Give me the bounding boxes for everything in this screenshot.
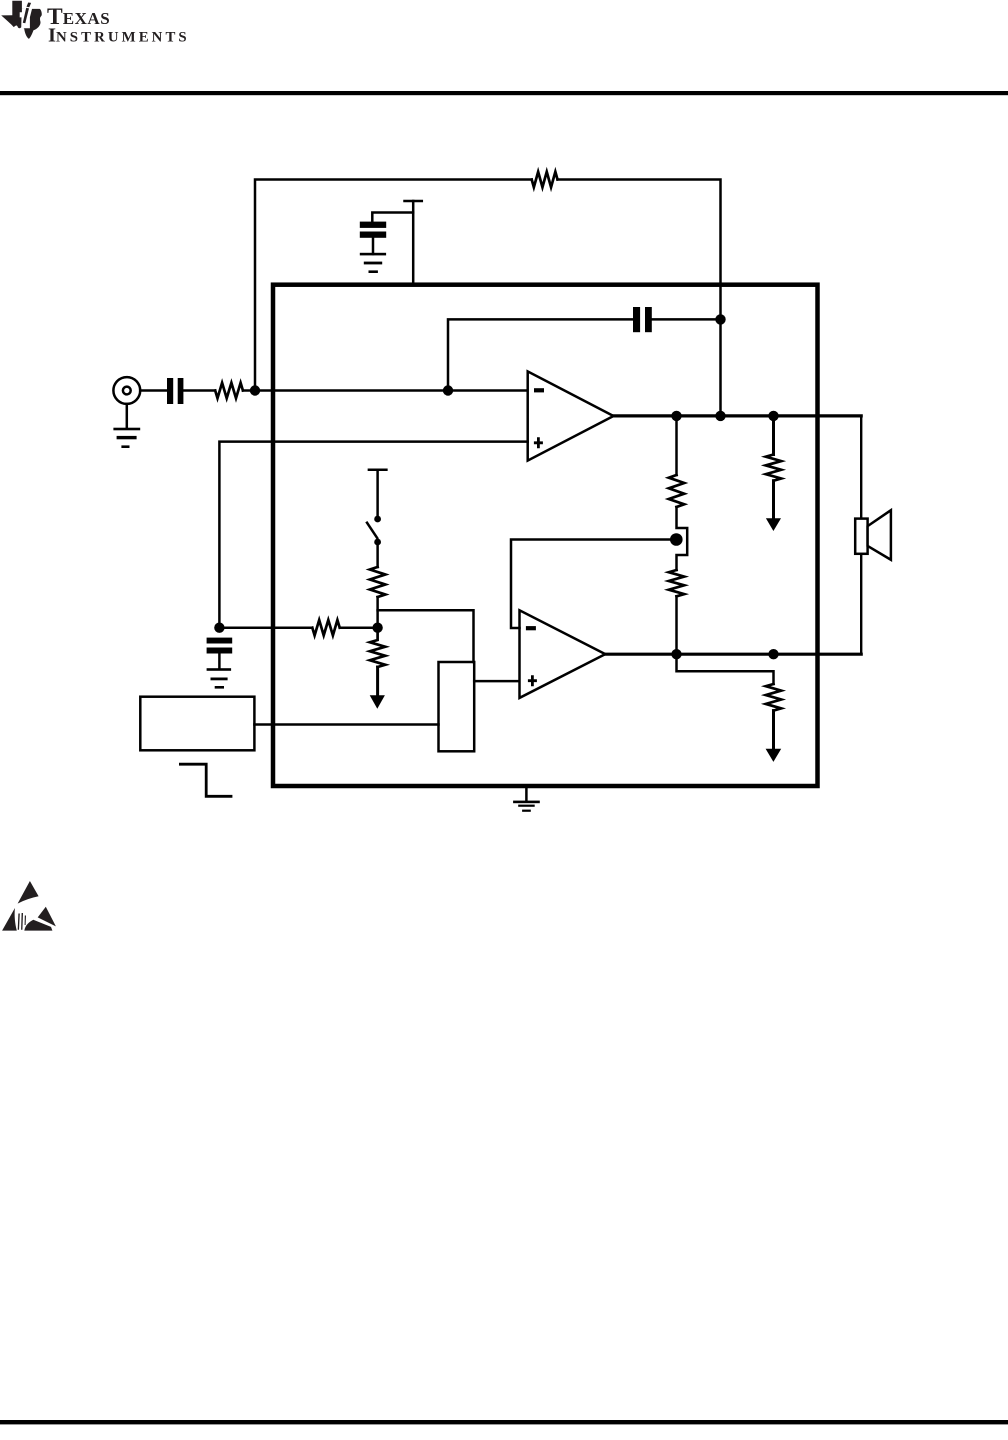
input jack J1 (113, 377, 140, 404)
waveform symbol (180, 764, 231, 796)
TI logo i stroke (23, 8, 29, 23)
op-amp U1A plus sign (534, 437, 543, 448)
resistor R8 (766, 455, 781, 481)
wire: jack to C1 (140, 389, 167, 392)
node: output1/R8 junction (768, 411, 778, 421)
wire: R8 to arrow (772, 481, 775, 519)
ESD symbol (2, 881, 56, 931)
ground stem (IC bottom) (525, 787, 528, 801)
ground (IC bottom) (513, 801, 540, 804)
capacitor C4 (top bypass) (360, 222, 386, 228)
arrow (R5 current sink) (370, 695, 385, 708)
wire: C4 lower lead (372, 237, 375, 254)
ESD slash piece (38, 907, 56, 927)
wire: top feedback right segment (558, 180, 721, 416)
capacitor C1 (input coupling) (167, 378, 173, 404)
terminal: shutdown chain top bar (369, 469, 387, 472)
arrow (R9 current sink) (766, 749, 782, 762)
wire: speaker top lead (860, 416, 862, 519)
wire: jack ground stem (126, 404, 129, 428)
wire: bypass jog to C4 (372, 213, 413, 223)
TI logo i accent (27, 3, 32, 8)
op-amp U1B minus sign (526, 626, 536, 630)
node: input junction (250, 385, 260, 395)
op-amp U1B (520, 610, 606, 698)
wire: speaker bottom lead (860, 554, 862, 654)
wire: input node up to top feedback (255, 180, 532, 390)
speaker LS1 frame (855, 519, 867, 554)
capacitor C2 (feedback) (633, 307, 640, 332)
wire: R5 to arrow (376, 667, 379, 696)
ESD left sliver (2, 908, 17, 931)
capacitor C3 (left bypass) (207, 638, 233, 644)
TI logo white ti cutout (20, 8, 33, 28)
wire: R6 top lead (675, 416, 678, 475)
wire: switch to R4 (376, 545, 379, 567)
speaker LS1 horn (868, 510, 891, 560)
op-amp U1B plus sign (528, 675, 537, 686)
wire: C2 feedback left leg (448, 319, 633, 390)
node: output1/top feedback junction (715, 411, 725, 421)
wire: C1 to R2 (183, 389, 215, 392)
resistor R4 (370, 567, 385, 597)
TI logo Texas map (1, 1, 42, 39)
node: C2/top feedback junction (715, 314, 725, 324)
ground (input jack) (113, 428, 140, 431)
resistor R2 (input) (215, 383, 243, 398)
wire: U1B feedback to divider tap (511, 540, 671, 629)
ESD finger strokes (18, 914, 20, 930)
wire: bypass node to R3 (219, 626, 312, 629)
resistor R9 (766, 684, 781, 711)
wire: terminal to switch (376, 470, 379, 516)
node: output2/R7 junction (671, 649, 681, 659)
ground (C4 top bypass) (360, 253, 386, 256)
ESD bottom bar with hand bump (17, 920, 52, 931)
output line 2 (605, 653, 861, 656)
svg-text:TEXAS: TEXAS (47, 4, 110, 30)
wire: shutdown box to control block (254, 723, 438, 726)
node: divider tap (670, 533, 683, 546)
ESD top wedge (18, 881, 39, 904)
wire: R4 to node with tap (376, 597, 379, 628)
wire: C3 lower lead (218, 654, 221, 670)
wire: tap to control block (378, 610, 474, 662)
wire: R3 to divider node (340, 626, 378, 629)
wire: R2 to op-amp U1A inverting input (243, 389, 528, 392)
shutdown box (external) (140, 697, 254, 751)
switch S1 top contact (374, 516, 381, 523)
wire: R7 to output line 2 (675, 596, 678, 654)
node: bypass junction (214, 623, 224, 633)
resistor R6 (669, 475, 684, 507)
wire: jog below output line 2 (677, 654, 774, 684)
wire: U1A + input (219, 442, 527, 623)
wire: divider jog bracket (677, 507, 688, 570)
wire: bypass pin into IC (412, 201, 415, 282)
control block (439, 662, 475, 751)
switch S1 lever (367, 523, 377, 538)
resistor R7 (669, 570, 684, 596)
wire: R9 to arrow (772, 711, 775, 750)
wire: C2 to output node (652, 318, 721, 321)
terminal: bypass pin bar (405, 200, 422, 203)
top rule (0, 91, 1008, 95)
node: U1A inverting input junction (443, 385, 453, 395)
node: output2/R9 junction (768, 649, 778, 659)
resistor R3 (312, 620, 339, 635)
op-amp U1A minus sign (534, 388, 544, 392)
arrow (R8 current sink) (766, 518, 781, 531)
wire: control block to U1B + input (474, 680, 519, 683)
wire: R8 top lead (772, 416, 775, 455)
resistor R1 (top feedback) (532, 172, 558, 187)
output line 1 (614, 414, 862, 417)
bottom rule (0, 1420, 1008, 1424)
op-amp U1A (528, 371, 614, 460)
switch S1 bottom contact (374, 539, 381, 546)
IC box U1 (273, 285, 818, 786)
node: output1/R6 junction (671, 411, 681, 421)
ground (C3 left bypass) (207, 668, 232, 671)
svg-text:INSTRUMENTS: INSTRUMENTS (48, 25, 190, 47)
resistor R5 (370, 628, 385, 667)
node: divider junction (372, 623, 382, 633)
